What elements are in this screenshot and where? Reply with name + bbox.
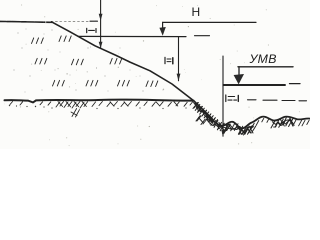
symbol S3 bbox=[226, 95, 239, 102]
level arrow UMV bbox=[234, 67, 244, 85]
hatch group row2 b bbox=[72, 59, 84, 65]
bed hatch left bbox=[211, 119, 227, 134]
hatch group row2 a bbox=[35, 58, 47, 64]
crest level faint extension bbox=[51, 20, 98, 22]
hatch group row1 b bbox=[59, 36, 71, 42]
crest line (berm top left) bbox=[0, 20, 52, 23]
river bed line bbox=[204, 111, 311, 128]
svg-text:УМВ: УМВ bbox=[249, 52, 277, 66]
level arrow H bbox=[159, 22, 165, 35]
hatch group row1 a bbox=[32, 38, 44, 44]
dimension line d2 bbox=[178, 37, 180, 81]
bed hatch sparse middle bbox=[256, 118, 269, 125]
leader line H bbox=[163, 21, 256, 23]
soil hatch band below ground line bbox=[10, 101, 193, 117]
leader line UMV bbox=[238, 66, 293, 68]
hatch group row3 a bbox=[53, 80, 65, 86]
scan speckle bbox=[4, 4, 300, 146]
arrowhead d3 bbox=[221, 130, 225, 137]
arrowhead d2 bbox=[177, 74, 181, 81]
slope toe hatch bbox=[193, 103, 218, 126]
water level line H bbox=[78, 35, 186, 37]
bed scribble overlay bbox=[196, 103, 293, 134]
hatch group row3 d bbox=[146, 81, 158, 87]
water level line UMV dash bbox=[290, 83, 301, 85]
arrowhead d1 top bbox=[99, 14, 103, 21]
arrowhead d1 bottom bbox=[99, 42, 103, 49]
svg-text:Н: Н bbox=[192, 5, 201, 19]
dimension line d3 bbox=[222, 56, 224, 136]
bed hatch mid bbox=[224, 123, 254, 134]
bed hatch dip patch bbox=[239, 126, 256, 135]
ground level dashed line right bbox=[248, 100, 307, 101]
soil hatch dots below ground line bbox=[9, 105, 187, 109]
symbol S2 bbox=[165, 57, 173, 63]
slope line bbox=[52, 22, 213, 119]
hatch group row3 c bbox=[118, 80, 130, 86]
ground line left bbox=[5, 100, 194, 103]
soil dots bbox=[14, 29, 164, 93]
dimension line d1 bbox=[100, 0, 102, 48]
water level line H dash bbox=[195, 35, 210, 37]
slope toe hatch bbox=[194, 103, 215, 125]
bed hatch far right bbox=[294, 119, 309, 126]
hatch group row2 c bbox=[110, 58, 122, 64]
hatch group row3 b bbox=[86, 80, 98, 86]
crest level tick bbox=[90, 20, 98, 22]
bed hatch right bbox=[271, 118, 294, 129]
water level line UMV bbox=[223, 84, 285, 86]
symbol S1 bbox=[87, 28, 96, 32]
